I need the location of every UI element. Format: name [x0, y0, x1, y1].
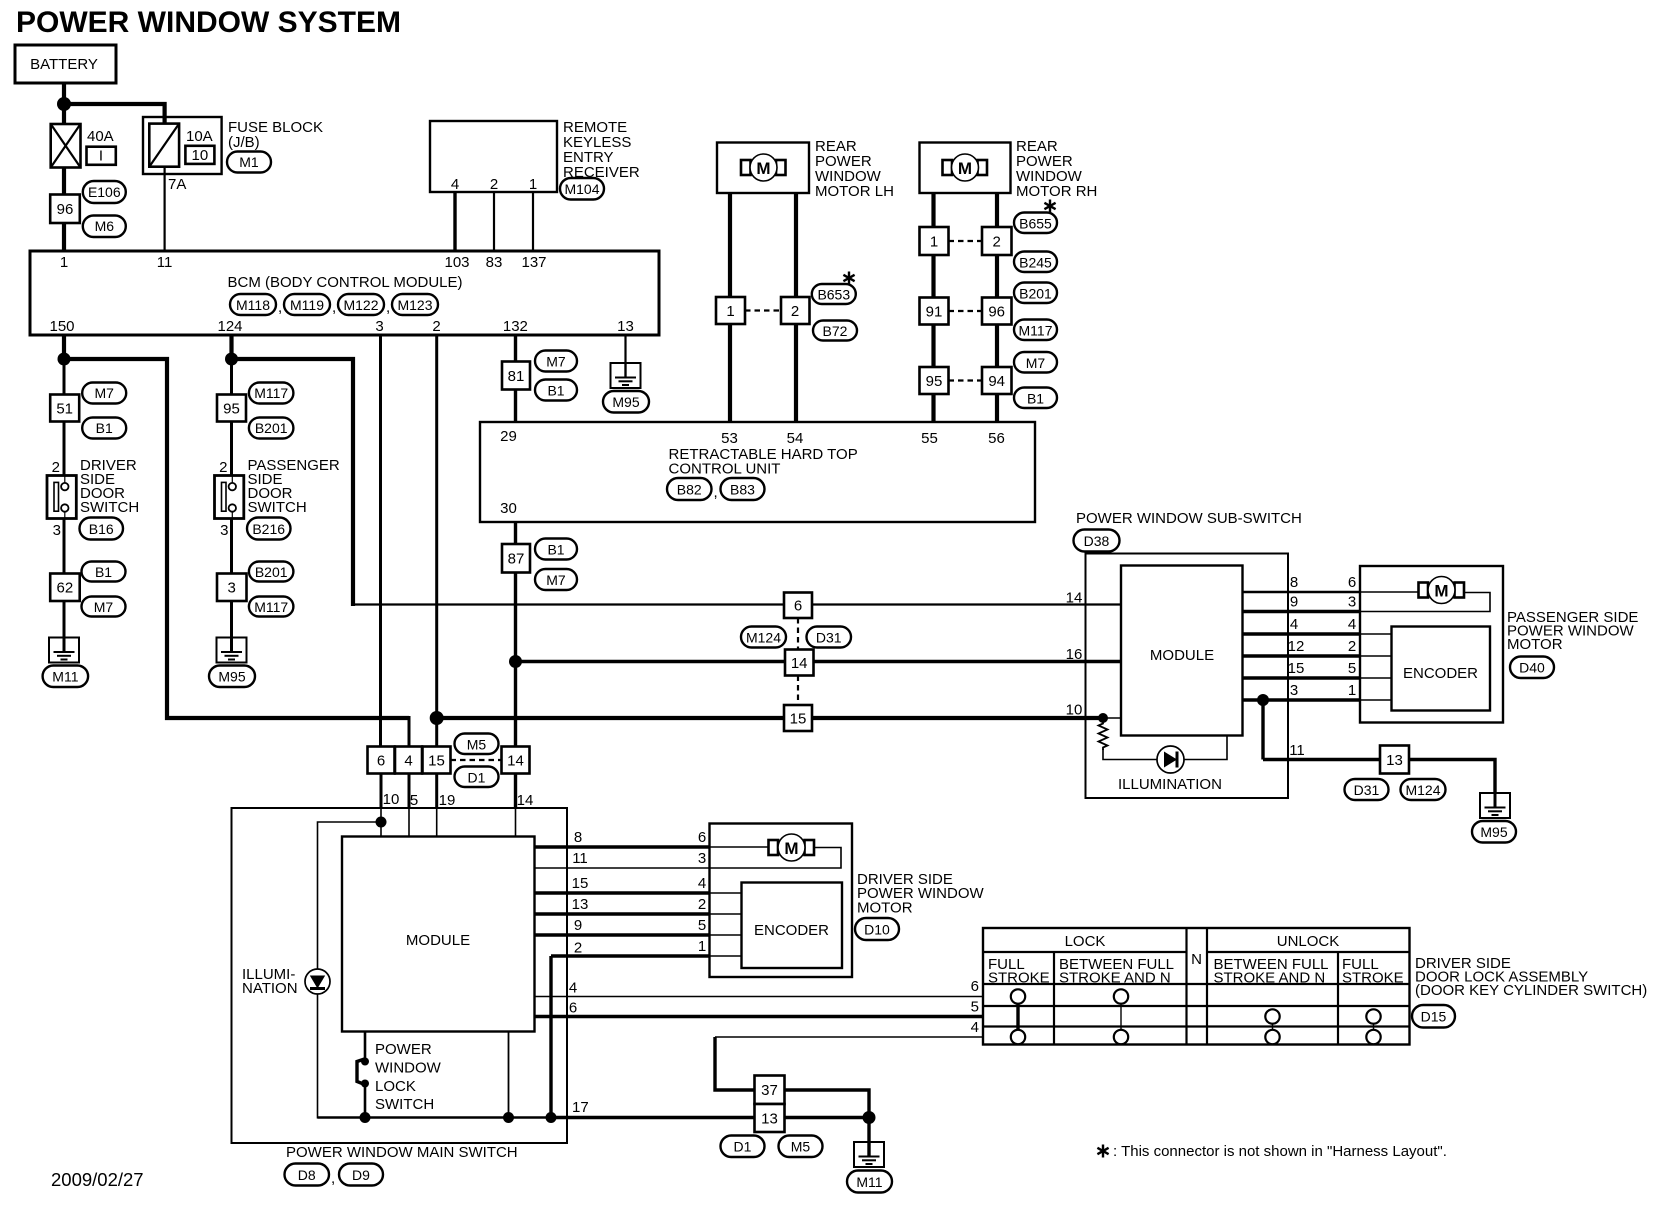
svg-text:,: , [278, 299, 282, 316]
wire sub row 15-5 [1243, 676, 1392, 679]
svg-text:4: 4 [698, 875, 706, 892]
svg-text:54: 54 [787, 430, 804, 447]
svg-text:B16: B16 [89, 521, 114, 537]
label illumination sub [1118, 776, 1222, 793]
svg-text:STROKE: STROKE [988, 970, 1050, 987]
label driver side door switch [80, 457, 139, 516]
svg-text:B216: B216 [252, 521, 285, 537]
svg-text:B82: B82 [677, 482, 702, 498]
svg-text:POWER WINDOW SUB-SWITCH: POWER WINDOW SUB-SWITCH [1076, 510, 1302, 527]
BCM pin 3 [375, 318, 383, 335]
connector B216 [247, 518, 291, 540]
dashed link 91-96 [949, 310, 983, 312]
svg-text:62: 62 [57, 580, 74, 597]
connector D1 trio [455, 767, 499, 788]
connector M95 sub [1472, 821, 1516, 843]
ground M95 passenger [217, 638, 247, 663]
pin 2 label driver door switch [52, 459, 60, 476]
svg-text:BCM (BODY CONTROL MODULE): BCM (BODY CONTROL MODULE) [227, 274, 462, 291]
table verticals [1054, 928, 1338, 1045]
svg-text:M11: M11 [52, 669, 78, 685]
connector 96 RH [982, 298, 1012, 325]
BCM pin 137 [521, 254, 546, 271]
wire module row 9-5 [535, 933, 742, 936]
ground M95 sub [1480, 793, 1510, 818]
fuse 10A [149, 124, 179, 167]
svg-text:53: 53 [721, 430, 738, 447]
connector 87 [502, 544, 530, 573]
label 40A [87, 128, 114, 145]
svg-text:29: 29 [500, 428, 517, 445]
svg-text:2: 2 [574, 940, 582, 957]
wire line A to sub-switch pin 14 [353, 603, 1121, 605]
date [51, 1169, 144, 1190]
svg-text:11: 11 [157, 254, 173, 271]
wire 17 line to connector 13 [551, 1116, 755, 1119]
wire door switch to 62 [63, 519, 66, 575]
svg-text:3: 3 [1348, 594, 1356, 611]
svg-text:4: 4 [1290, 616, 1298, 633]
node illumination branch [376, 817, 387, 828]
dashed link RH 1-2 [949, 240, 983, 242]
wire drop into connector 4 [408, 716, 411, 747]
connector 2 RH [982, 227, 1012, 255]
wire RH col1 seg2 [931, 255, 935, 298]
svg-text:B201: B201 [1019, 286, 1052, 302]
connector D10 [855, 918, 899, 940]
wire RH col1 seg3 [931, 325, 935, 368]
wire junction down to pin 11 [1261, 700, 1264, 760]
label rear power window motor RH [1016, 138, 1097, 200]
svg-text:M122: M122 [343, 297, 378, 313]
wire sub row 4-4 [1243, 632, 1392, 635]
svg-text:14: 14 [507, 753, 524, 770]
svg-text:6: 6 [971, 978, 979, 995]
connector B1 at 81 [535, 380, 577, 401]
connector 15 trio [423, 747, 451, 774]
svg-text:B653: B653 [817, 287, 850, 303]
header full stroke 1 [988, 956, 1050, 987]
svg-text:D40: D40 [1519, 660, 1545, 676]
wire connector 96 to BCM pin 1 [62, 223, 66, 252]
pin 53 [721, 430, 738, 447]
table outer [983, 928, 1410, 1045]
connector 15 mid [784, 705, 812, 731]
wire 95 to passenger door switch [230, 422, 233, 476]
wire branch 124 to line A [232, 359, 354, 606]
contact circles row5 [1265, 1009, 1380, 1023]
connector B201 RH [1014, 283, 1057, 304]
wire LH 53 to control unit [728, 324, 732, 422]
module box driver [342, 837, 535, 1032]
svg-text:SWITCH: SWITCH [248, 499, 307, 516]
connector B83 [714, 478, 765, 501]
wire module row 2-1 [551, 954, 742, 957]
pin 1 label [529, 176, 537, 193]
wire receiver pin 4 to BCM 103 [453, 192, 456, 251]
svg-text:M7: M7 [1026, 355, 1046, 371]
table pin 6 label [971, 978, 979, 995]
svg-text:3: 3 [375, 318, 383, 335]
pin 54 [787, 430, 804, 447]
passenger motor box [1360, 566, 1503, 723]
wire 13 to ground junction [785, 1116, 870, 1119]
switch contact link col5 [1373, 1022, 1375, 1031]
svg-text:M118: M118 [236, 297, 270, 313]
table pin 5 label [971, 999, 979, 1016]
connector 14 trio [502, 747, 530, 774]
svg-text:LOCK: LOCK [375, 1078, 416, 1095]
svg-text:BATTERY: BATTERY [30, 56, 98, 73]
wire line C to sub-switch pin 10 [437, 716, 1103, 720]
connector M95 [209, 666, 255, 688]
svg-text:NATION: NATION [242, 980, 298, 997]
label power window lock switch [375, 1041, 442, 1113]
connector 13 sub [1380, 746, 1409, 774]
svg-text:CONTROL UNIT: CONTROL UNIT [669, 461, 781, 478]
svg-text:13: 13 [761, 1111, 778, 1128]
svg-text:B1: B1 [547, 383, 564, 399]
wire 124 column [230, 359, 233, 395]
svg-text:M7: M7 [94, 599, 114, 615]
ground M11 driver [49, 638, 79, 663]
svg-text:B1: B1 [96, 420, 113, 436]
wire RH col2 seg2 [995, 255, 999, 298]
connector 81 [502, 362, 530, 390]
resistor illumination [1099, 718, 1108, 750]
wire down to ground M11 [867, 1118, 870, 1158]
connector 95 RH [920, 367, 949, 394]
connector 96 [50, 195, 80, 224]
connector M122 [332, 294, 384, 316]
svg-text:132: 132 [503, 318, 528, 335]
title [16, 6, 401, 39]
svg-text:D1: D1 [468, 770, 486, 786]
asterisk B655 [1044, 200, 1055, 213]
connector 14 mid [785, 650, 814, 676]
svg-text:124: 124 [217, 318, 242, 335]
label remote keyless entry receiver [563, 119, 640, 181]
wire trio 14 to main switch [514, 774, 517, 809]
svg-text:19: 19 [439, 792, 456, 809]
table header unlock [1277, 933, 1340, 950]
connector D1 lower [721, 1136, 765, 1158]
svg-text:55: 55 [921, 430, 938, 447]
connector 4 trio [395, 747, 422, 774]
dashed link 95-94 [949, 379, 983, 381]
svg-text:103: 103 [444, 254, 469, 271]
svg-text:POWER WINDOW SYSTEM: POWER WINDOW SYSTEM [16, 6, 401, 39]
wire sub row 9-3 [1243, 593, 1491, 612]
connector D8 [285, 1164, 330, 1186]
wire BCM 2 into connector 15 [435, 718, 438, 747]
svg-text:2: 2 [52, 459, 60, 476]
svg-text:2009/02/27: 2009/02/27 [51, 1169, 144, 1190]
rail inside main switch [318, 1116, 552, 1119]
pin 2 label [490, 176, 498, 193]
svg-text:STROKE: STROKE [1342, 970, 1404, 987]
wire BCM 3 to connector row [379, 335, 382, 747]
wire LED to rail [317, 994, 319, 1119]
connector B201 second [249, 562, 294, 582]
wire RH motor pin2 segment [995, 193, 999, 227]
driver motor box [710, 824, 853, 978]
wire LH motor pin1 down [728, 193, 732, 297]
connector B82 [667, 478, 712, 500]
svg-text:6: 6 [377, 753, 385, 770]
wire pin19 inside [436, 808, 438, 837]
label 6 left [569, 1000, 577, 1017]
pin 29 [500, 428, 517, 445]
svg-text:94: 94 [988, 373, 1005, 390]
wire fuse 10A to BCM pin 11 [164, 167, 166, 252]
svg-text:M7: M7 [546, 572, 566, 588]
wire BCM 2 down [435, 335, 438, 718]
wire LED to module bottom [1184, 736, 1227, 760]
svg-text:STROKE AND N: STROKE AND N [1059, 970, 1171, 987]
svg-text:15: 15 [790, 711, 807, 728]
svg-text:8: 8 [1290, 574, 1298, 591]
svg-text:3: 3 [220, 522, 228, 539]
wire module row 11-3 [535, 848, 842, 869]
connector D31 mid [807, 627, 852, 648]
wire row2 vertical [549, 956, 552, 1118]
svg-text:2: 2 [432, 318, 440, 335]
node line C junction [430, 711, 444, 725]
BCM pin 83 [486, 254, 503, 271]
svg-text:M123: M123 [397, 297, 432, 313]
connector D38 [1074, 530, 1120, 552]
svg-text:83: 83 [486, 254, 503, 271]
svg-text:D1: D1 [734, 1139, 752, 1155]
svg-text:37: 37 [761, 1082, 778, 1099]
connector D15 [1412, 1005, 1455, 1028]
wire RH col2 seg3 [995, 325, 999, 368]
svg-text:13: 13 [617, 318, 634, 335]
connector M7 at 81 [535, 351, 577, 372]
BCM pin 11 [157, 254, 173, 271]
svg-text:11: 11 [572, 850, 588, 867]
label 7A [168, 176, 186, 193]
connector M5 lower [779, 1136, 823, 1158]
svg-text:M5: M5 [467, 737, 487, 753]
pin 56 [988, 430, 1005, 447]
svg-text:M5: M5 [791, 1139, 811, 1155]
wire BCM 132 to connector 81 [514, 335, 517, 362]
node resistor junction [1098, 713, 1108, 723]
retractable hard top control unit [480, 422, 1035, 522]
illumination LED sub [1157, 746, 1184, 773]
svg-text:B1: B1 [547, 542, 564, 558]
motor M driver [769, 834, 815, 861]
svg-text:MOTOR LH: MOTOR LH [815, 183, 894, 200]
connector M7 at 87 [535, 569, 577, 590]
header between full 2 [1214, 956, 1329, 987]
driver side door switch [47, 476, 76, 519]
row labels right driver [698, 829, 706, 955]
module box sub-switch [1121, 566, 1243, 736]
wire 37 to ground junction [785, 1090, 870, 1118]
label driver side power window motor [857, 871, 984, 917]
footnote asterisk [1097, 1143, 1446, 1160]
svg-text:M124: M124 [1405, 782, 1440, 798]
svg-text:4: 4 [971, 1019, 979, 1036]
connector B72 [813, 321, 857, 341]
svg-text:B1: B1 [1027, 391, 1044, 407]
svg-text:6: 6 [1348, 574, 1356, 591]
header between full 1 [1059, 956, 1174, 987]
svg-text:M117: M117 [254, 599, 288, 615]
contact circles row4 [1011, 1030, 1381, 1044]
svg-text:MOTOR: MOTOR [857, 900, 913, 917]
svg-text:M95: M95 [612, 394, 639, 410]
svg-text:D15: D15 [1421, 1009, 1447, 1025]
connector M117 second [249, 597, 294, 617]
wire 3 to ground [230, 601, 233, 652]
connector M117 [249, 383, 294, 404]
svg-text:2: 2 [993, 234, 1001, 251]
wire RH 55 to control unit [931, 394, 935, 422]
pin 30 [500, 500, 517, 517]
svg-text:M117: M117 [1019, 323, 1053, 339]
svg-text:13: 13 [572, 896, 589, 913]
svg-text:56: 56 [988, 430, 1005, 447]
svg-text:M: M [1434, 582, 1448, 601]
wire connector 13 to ground [1409, 760, 1495, 795]
svg-text:4: 4 [569, 980, 577, 997]
label power window main switch [286, 1144, 518, 1161]
connector 6 mid [784, 593, 812, 619]
wire trio 4 to main switch [408, 774, 411, 809]
svg-text:MOTOR: MOTOR [1507, 636, 1563, 653]
svg-text:15: 15 [428, 753, 445, 770]
wire pin10 inside [380, 808, 382, 837]
connector M7 [82, 383, 126, 404]
BCM pin 2 [432, 318, 440, 335]
wire line B to sub-switch pin 16 [516, 660, 1122, 663]
svg-text:M119: M119 [290, 297, 324, 313]
svg-text:14: 14 [517, 792, 534, 809]
wire main switch pin4 to table pin6 [535, 996, 984, 998]
motor M passenger [1419, 577, 1465, 604]
svg-text:5: 5 [698, 917, 706, 934]
rear power window motor LH box [717, 143, 809, 194]
svg-text:1: 1 [698, 938, 706, 955]
svg-text:D31: D31 [1354, 782, 1380, 798]
wire sub row 3-1 [1243, 698, 1392, 701]
wire pin14 inside [515, 808, 517, 837]
switch contact link col2 [1120, 1002, 1122, 1031]
connector M11 [43, 666, 89, 688]
svg-text:M11: M11 [856, 1174, 882, 1190]
svg-text:3: 3 [53, 522, 61, 539]
svg-text:: This connector is not shown: : This connector is not shown in "Harnes… [1113, 1143, 1447, 1160]
svg-text:B201: B201 [255, 420, 288, 436]
svg-text:9: 9 [574, 917, 582, 934]
battery [15, 45, 116, 83]
ground M11 lower [854, 1142, 884, 1167]
svg-text:MODULE: MODULE [406, 932, 470, 949]
connector M119 [278, 294, 330, 316]
wire resistor junction to module [1103, 717, 1121, 719]
wire main switch pin6 to table pin5 [535, 1015, 984, 1018]
svg-text:10A: 10A [186, 128, 213, 145]
table pin 4 label [971, 1019, 979, 1036]
connector M11 lower [847, 1171, 892, 1193]
connector M5 trio [455, 734, 499, 755]
connector M1 [227, 152, 271, 173]
svg-text:D31: D31 [816, 630, 842, 646]
connector 13 lower [755, 1104, 785, 1132]
BCM pin 13 [617, 318, 634, 335]
connector 94 [982, 367, 1012, 394]
wire pin 30 to connector 87 [514, 522, 517, 545]
motor M LH [741, 154, 786, 181]
pin 10 label sub [1066, 702, 1083, 719]
svg-text:M6: M6 [95, 218, 115, 234]
svg-text:17: 17 [572, 1099, 589, 1116]
pin 16 label sub [1066, 646, 1083, 663]
BCM body control module [30, 251, 659, 335]
pin 14 label [517, 792, 534, 809]
wire 87 down to connector 14 [514, 573, 517, 748]
pin 4 label [451, 176, 459, 193]
connector B1 RH [1014, 388, 1057, 409]
svg-text:M: M [756, 159, 770, 178]
svg-text:MODULE: MODULE [1150, 647, 1214, 664]
svg-text:14: 14 [1066, 590, 1083, 607]
wire BCM 13 to ground [624, 335, 626, 377]
svg-text:2: 2 [490, 176, 498, 193]
node 124 junction [225, 353, 238, 366]
wire module pin to rail [508, 1032, 510, 1118]
svg-text:81: 81 [508, 368, 525, 385]
label fuse block [228, 119, 323, 151]
label 11 [1289, 742, 1305, 759]
svg-text:9: 9 [1290, 594, 1298, 611]
pin 2 label passenger door switch [219, 459, 227, 476]
svg-text:2: 2 [698, 896, 706, 913]
svg-text:10: 10 [383, 791, 400, 808]
svg-text:87: 87 [508, 551, 525, 568]
wire LH motor pin2 down [794, 193, 798, 297]
dashed link 15 to 14 trio [451, 759, 502, 761]
connector B201 [249, 418, 294, 439]
svg-text:7A: 7A [168, 176, 186, 193]
svg-text:8: 8 [574, 829, 582, 846]
connector 37 [755, 1076, 785, 1105]
svg-text:6: 6 [698, 829, 706, 846]
wire module row 13-2 [535, 912, 742, 915]
svg-text:10: 10 [1066, 702, 1083, 719]
svg-text:D10: D10 [864, 922, 890, 938]
svg-text:12: 12 [1288, 638, 1305, 655]
svg-text:96: 96 [988, 304, 1005, 321]
encoder box passenger [1392, 627, 1491, 711]
svg-text:1: 1 [726, 303, 734, 320]
svg-text:,: , [332, 299, 336, 316]
wire BCM 150 down [62, 335, 66, 360]
connector B653 [812, 284, 856, 304]
node rail row2 [546, 1112, 557, 1123]
svg-text:D9: D9 [352, 1167, 370, 1183]
connector M95 at BCM 13 [603, 391, 649, 413]
svg-text:B1: B1 [95, 564, 112, 580]
svg-text:M104: M104 [564, 181, 599, 197]
passenger side door switch [215, 476, 244, 519]
wire branch 150 to main switch feed [64, 359, 409, 718]
BCM pin 103 [444, 254, 469, 271]
